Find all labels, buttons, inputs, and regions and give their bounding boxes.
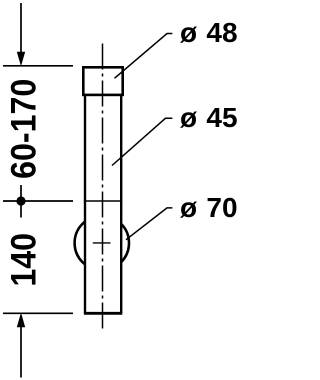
pipe right wall xyxy=(120,96,122,313)
dimension line bottom (pipe end) xyxy=(3,312,73,314)
pipe joint line xyxy=(84,200,122,202)
leader line for o 70 xyxy=(126,208,172,240)
pipe left wall xyxy=(84,96,86,313)
extension line with down arrow (top of 60-170) xyxy=(17,3,25,66)
svg-text:140: 140 xyxy=(5,233,44,287)
svg-text:ø 70: ø 70 xyxy=(180,192,238,223)
dimension junction dot at 140/60-170 boundary xyxy=(16,185,25,218)
pipe collar (o 48) xyxy=(83,67,122,95)
svg-text:ø 45: ø 45 xyxy=(180,102,238,133)
dimension line middle (joint level) xyxy=(3,200,73,202)
extension line with up arrow (bottom of 140) xyxy=(17,313,25,378)
svg-text:60-170: 60-170 xyxy=(5,79,44,179)
svg-text:ø 48: ø 48 xyxy=(180,17,238,48)
center line (dash-dot) xyxy=(102,44,104,332)
dimension line top (ref for 60-170) xyxy=(3,65,73,67)
pipe bottom edge xyxy=(84,312,122,315)
leader line for o 48 xyxy=(115,34,173,79)
leader line for o 45 xyxy=(112,118,172,165)
center line horizontal tick at ball center xyxy=(93,242,111,244)
